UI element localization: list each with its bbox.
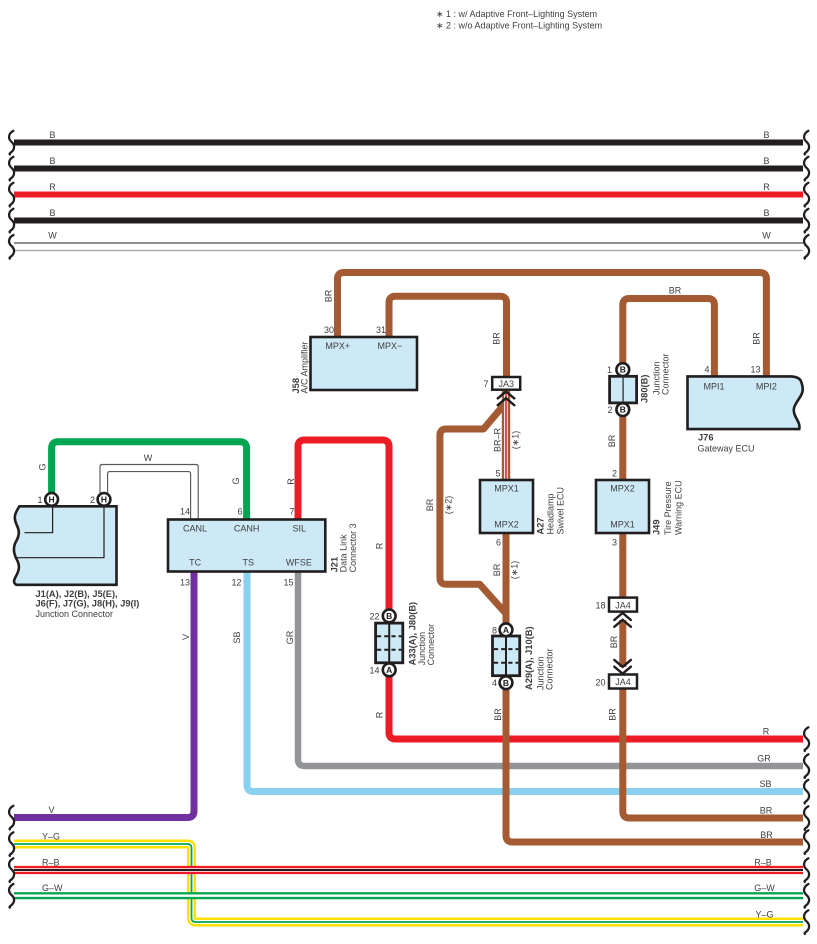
svg-text:B: B bbox=[763, 156, 769, 166]
svg-text:2: 2 bbox=[607, 405, 612, 415]
J1 internal wire from pin1 bbox=[25, 506, 53, 532]
svg-text:Junction Connector: Junction Connector bbox=[36, 609, 114, 619]
wire R bottom bus bbox=[298, 440, 803, 739]
connector A29(A),J10(B) junction grid box bbox=[493, 623, 520, 689]
ECU J58 A/C Amplifier box bbox=[311, 337, 418, 390]
chevron below JA4-18 bbox=[614, 613, 631, 627]
J49 box labels bbox=[610, 469, 683, 548]
top bus labels left bbox=[48, 130, 57, 241]
svg-text:MPX2: MPX2 bbox=[494, 520, 519, 530]
svg-text:R: R bbox=[374, 711, 384, 718]
svg-text:BR: BR bbox=[324, 289, 334, 302]
svg-text:BR: BR bbox=[492, 563, 502, 576]
svg-text:Connector 3: Connector 3 bbox=[348, 523, 358, 572]
connector J1 junction connector box (torn left edge) bbox=[14, 506, 117, 585]
wire BR between JA4 chevrons bbox=[619, 620, 626, 667]
svg-text:4: 4 bbox=[704, 364, 709, 374]
svg-text:Connector: Connector bbox=[545, 648, 555, 690]
svg-text:MPI2: MPI2 bbox=[756, 382, 777, 392]
pin 14 circle A bbox=[383, 664, 396, 677]
svg-text:BR: BR bbox=[760, 806, 773, 816]
svg-text:CANL: CANL bbox=[183, 524, 207, 534]
A27 box labels bbox=[494, 469, 565, 548]
svg-text:MPX−: MPX− bbox=[378, 341, 403, 351]
svg-text:GR: GR bbox=[757, 754, 771, 764]
svg-text:B: B bbox=[386, 611, 392, 621]
svg-text:18: 18 bbox=[595, 601, 605, 611]
break symbols bottom right bbox=[804, 727, 809, 934]
svg-text:SIL: SIL bbox=[292, 524, 306, 534]
svg-text:G: G bbox=[38, 463, 48, 470]
svg-text:6: 6 bbox=[496, 537, 501, 547]
svg-text:J76: J76 bbox=[698, 432, 714, 442]
svg-text:MPX+: MPX+ bbox=[325, 341, 350, 351]
svg-text:30: 30 bbox=[324, 325, 334, 335]
wire G green J1 pin1 to J21 CANH bbox=[52, 442, 247, 520]
svg-text:7: 7 bbox=[289, 507, 294, 517]
svg-text:B: B bbox=[49, 130, 55, 140]
pin 8 circle A bbox=[500, 623, 513, 636]
A33 junction labels bbox=[369, 602, 436, 676]
svg-text:15: 15 bbox=[283, 578, 293, 588]
J1 junction labels bbox=[36, 495, 140, 619]
svg-text:Connector: Connector bbox=[426, 624, 436, 666]
svg-text:R–B: R–B bbox=[42, 858, 60, 868]
svg-text:Data Link: Data Link bbox=[339, 534, 349, 573]
svg-text:Tire Pressure: Tire Pressure bbox=[663, 481, 673, 535]
svg-text:13: 13 bbox=[750, 364, 760, 374]
svg-text:R: R bbox=[763, 182, 770, 192]
wire bus B top1 bbox=[14, 140, 803, 146]
svg-text:14: 14 bbox=[369, 665, 379, 675]
bottom bus labels right bbox=[754, 727, 775, 920]
wire BR J49 pin3 to JA4 pin18 bbox=[619, 532, 626, 599]
wire BR JA4 pin20 down to right bus bbox=[623, 688, 803, 819]
wire G-W green-white striped bbox=[14, 892, 803, 899]
J76 box labels bbox=[698, 364, 777, 453]
svg-text:J80(B): J80(B) bbox=[640, 375, 650, 403]
svg-text:H: H bbox=[101, 495, 107, 505]
bottom bus labels left bbox=[42, 805, 63, 893]
svg-text:W: W bbox=[762, 231, 771, 241]
svg-text:B: B bbox=[49, 156, 55, 166]
connector J21 Data Link Connector 3 box bbox=[168, 520, 325, 572]
svg-text:13: 13 bbox=[180, 578, 190, 588]
wire BR A29 pin4 down to right bus bbox=[506, 689, 803, 843]
svg-text:A29(A), J10(B): A29(A), J10(B) bbox=[524, 626, 534, 690]
svg-text:BR: BR bbox=[608, 708, 618, 721]
svg-text:A: A bbox=[386, 665, 392, 675]
pin 22 circle B bbox=[383, 610, 396, 623]
connector JA3 box bbox=[492, 377, 520, 390]
svg-text:BR: BR bbox=[425, 498, 435, 511]
wire GR bottom bus bbox=[298, 571, 803, 766]
svg-text:G: G bbox=[231, 477, 241, 484]
svg-text:BR: BR bbox=[493, 708, 503, 721]
svg-text:A27: A27 bbox=[535, 517, 545, 534]
svg-text:(∗2): (∗2) bbox=[444, 496, 454, 515]
svg-text:R: R bbox=[763, 727, 770, 737]
svg-text:A/C Amplifier: A/C Amplifier bbox=[300, 341, 310, 393]
wire BR A27 pin6 to A29 junction bbox=[503, 532, 510, 624]
break symbols bottom left bbox=[9, 806, 14, 908]
svg-text:Connector: Connector bbox=[661, 353, 671, 395]
ECU J76 Gateway ECU box (torn right edge) bbox=[688, 376, 803, 429]
svg-text:8: 8 bbox=[492, 625, 497, 635]
svg-text:BR: BR bbox=[492, 332, 502, 345]
wire bus B top4 bbox=[14, 218, 803, 224]
svg-text:Headlamp: Headlamp bbox=[546, 493, 556, 534]
svg-text:BR: BR bbox=[607, 434, 617, 447]
svg-text:4: 4 bbox=[492, 678, 497, 688]
J58 box labels bbox=[291, 325, 402, 394]
connector J80(B) junction connector box bbox=[610, 363, 637, 416]
svg-text:BR–R: BR–R bbox=[493, 428, 503, 453]
J80(B) connector labels bbox=[607, 353, 671, 415]
chevron below JA3 bbox=[498, 391, 515, 405]
wire bus W top5 (hollow white wire) bbox=[14, 243, 803, 251]
svg-text:6: 6 bbox=[237, 507, 242, 517]
svg-text:1: 1 bbox=[607, 365, 612, 375]
svg-text:5: 5 bbox=[495, 469, 500, 479]
wire BR-R striped JA3 to A27 pin5 bbox=[502, 391, 510, 481]
wire bus R top3 bbox=[14, 192, 803, 198]
svg-text:1: 1 bbox=[37, 495, 42, 505]
svg-text:20: 20 bbox=[595, 677, 605, 687]
J21 box labels bbox=[180, 507, 358, 588]
wire V purple bbox=[14, 571, 194, 818]
A29 junction labels bbox=[492, 625, 555, 690]
pin 4 circle B bbox=[500, 676, 513, 689]
svg-text:J49: J49 bbox=[652, 519, 662, 535]
svg-text:14: 14 bbox=[180, 507, 190, 517]
svg-text:CANH: CANH bbox=[234, 524, 260, 534]
ECU J49 Tire Pressure Warning ECU box bbox=[596, 480, 649, 533]
svg-text:Warning ECU: Warning ECU bbox=[674, 480, 684, 535]
wire BR (*2) bypass path bbox=[440, 403, 506, 613]
chevron above JA4-20 bbox=[614, 660, 631, 674]
wire bus B top2 bbox=[14, 166, 803, 172]
svg-text:V: V bbox=[181, 634, 191, 640]
ECU A27 Headlamp Swivel ECU box bbox=[480, 480, 533, 533]
svg-text:G–W: G–W bbox=[42, 883, 63, 893]
svg-text:22: 22 bbox=[369, 611, 379, 621]
svg-text:G–W: G–W bbox=[754, 883, 775, 893]
svg-text:B: B bbox=[763, 130, 769, 140]
wire BR J80(B) pin2 to J49 pin2 bbox=[619, 416, 626, 481]
svg-text:BR: BR bbox=[669, 286, 682, 296]
svg-text:BR: BR bbox=[609, 635, 619, 648]
svg-text:∗ 1 : w/ Adaptive Front–Lighti: ∗ 1 : w/ Adaptive Front–Lighting System bbox=[436, 9, 597, 19]
connector JA4 box pin20 bbox=[609, 675, 637, 689]
svg-text:H: H bbox=[49, 495, 55, 505]
svg-text:A33(A), J80(B): A33(A), J80(B) bbox=[407, 602, 417, 666]
wire Y-G yellow-green striped bbox=[14, 844, 803, 922]
svg-text:31: 31 bbox=[376, 325, 386, 335]
svg-text:3: 3 bbox=[612, 537, 617, 547]
svg-text:SB: SB bbox=[232, 631, 242, 643]
svg-text:V: V bbox=[49, 805, 55, 815]
svg-text:B: B bbox=[620, 405, 626, 415]
svg-text:R: R bbox=[374, 542, 384, 549]
top bus labels right bbox=[762, 130, 771, 241]
svg-text:B: B bbox=[49, 208, 55, 218]
wire BR J58 pin30 to J76 MPI2 bbox=[338, 273, 767, 378]
svg-text:MPI1: MPI1 bbox=[703, 382, 724, 392]
connector A33(A),J80(B) junction grid box bbox=[376, 610, 403, 677]
svg-text:W: W bbox=[144, 453, 153, 463]
wire W white outline J1 pin2 to J21 CANL bbox=[100, 465, 198, 521]
svg-text:BR: BR bbox=[752, 332, 762, 345]
svg-text:R–B: R–B bbox=[754, 858, 772, 868]
svg-text:(∗1): (∗1) bbox=[510, 431, 520, 450]
svg-text:TS: TS bbox=[243, 558, 255, 568]
svg-text:12: 12 bbox=[231, 578, 241, 588]
svg-text:7: 7 bbox=[483, 379, 488, 389]
svg-text:(∗1): (∗1) bbox=[509, 561, 519, 580]
svg-text:R: R bbox=[286, 478, 296, 485]
svg-text:2: 2 bbox=[90, 495, 95, 505]
svg-text:SB: SB bbox=[759, 779, 771, 789]
svg-text:JA3: JA3 bbox=[498, 379, 514, 389]
svg-text:Y–G: Y–G bbox=[42, 832, 60, 842]
break symbols right top bus bbox=[804, 131, 809, 259]
svg-text:TC: TC bbox=[189, 558, 201, 568]
svg-text:B: B bbox=[503, 678, 509, 688]
svg-text:J1(A), J2(B), J5(E),: J1(A), J2(B), J5(E), bbox=[36, 589, 118, 599]
svg-text:∗ 2 : w/o Adaptive Front–Light: ∗ 2 : w/o Adaptive Front–Lighting System bbox=[436, 21, 602, 31]
J1 internal wire from pin2 bbox=[16, 506, 105, 557]
break symbols left top bus bbox=[9, 131, 14, 259]
svg-text:GR: GR bbox=[285, 630, 295, 644]
wire SB bottom bus bbox=[247, 571, 803, 792]
svg-text:MPX2: MPX2 bbox=[610, 484, 635, 494]
svg-text:JA4: JA4 bbox=[615, 600, 631, 610]
svg-text:MPX1: MPX1 bbox=[494, 484, 519, 494]
svg-text:R: R bbox=[49, 182, 56, 192]
connector JA4 box pin18 bbox=[609, 598, 637, 612]
J1 pin 1 circle H bbox=[45, 493, 58, 506]
svg-text:Gateway ECU: Gateway ECU bbox=[698, 443, 755, 453]
svg-text:Y–G: Y–G bbox=[755, 910, 773, 920]
svg-text:J6(F), J7(G), J8(H), J9(I): J6(F), J7(G), J8(H), J9(I) bbox=[36, 599, 140, 609]
svg-text:B: B bbox=[763, 208, 769, 218]
svg-text:JA4: JA4 bbox=[615, 677, 631, 687]
wire BR J58 pin31 to JA3 bbox=[389, 296, 507, 377]
pin 2 circle B bbox=[616, 403, 629, 416]
wire BR J80(B) pin1 to J76 MPI1 bbox=[623, 299, 715, 378]
svg-text:MPX1: MPX1 bbox=[610, 520, 635, 530]
svg-text:Swivel ECU: Swivel ECU bbox=[556, 487, 566, 535]
svg-text:A: A bbox=[503, 625, 509, 635]
wire R-B red-black striped bbox=[14, 866, 803, 874]
svg-text:B: B bbox=[620, 365, 626, 375]
svg-text:W: W bbox=[48, 231, 57, 241]
J1 pin 2 circle H bbox=[98, 493, 111, 506]
svg-text:2: 2 bbox=[612, 469, 617, 479]
pin 1 circle B bbox=[616, 363, 629, 376]
svg-text:WFSE: WFSE bbox=[286, 558, 312, 568]
